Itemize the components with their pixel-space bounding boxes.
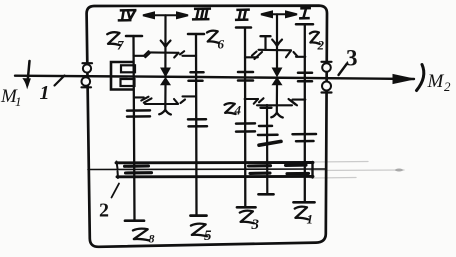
svg-text:7: 7 [117, 38, 124, 53]
svg-text:2: 2 [444, 79, 451, 94]
svg-text:3: 3 [251, 217, 260, 233]
svg-text:4: 4 [234, 103, 242, 118]
svg-text:1: 1 [307, 212, 314, 227]
svg-text:8: 8 [149, 232, 155, 246]
svg-text:6: 6 [218, 37, 225, 52]
svg-text:1: 1 [15, 94, 22, 109]
svg-text:3: 3 [346, 46, 358, 71]
svg-text:M: M [427, 71, 445, 92]
svg-text:1: 1 [40, 82, 50, 104]
svg-text:2: 2 [99, 200, 109, 222]
svg-text:2: 2 [317, 38, 325, 53]
svg-text:5: 5 [204, 228, 212, 244]
